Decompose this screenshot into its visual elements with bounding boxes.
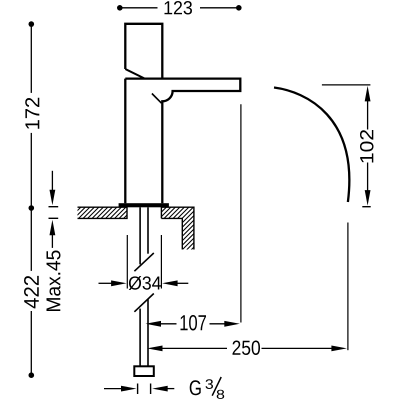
break slash lower [134, 294, 153, 312]
supply pipe [139, 309, 141, 367]
dimension Ø34 extension lines [126, 235, 128, 289]
spout fillet tick [152, 94, 162, 104]
handle lever diagonal [125, 69, 144, 78]
label 8 [217, 390, 225, 399]
label O34 [129, 276, 161, 290]
countertop left slab [78, 207, 128, 218]
faucet shank through hole [139, 207, 141, 264]
dimension 107 [146, 321, 240, 327]
countertop right slab L-shape [161, 207, 194, 249]
faucet handle [125, 24, 162, 79]
dimension Max.45 [49, 171, 59, 248]
label Max.45 rotated [47, 251, 61, 312]
faucet body and spout outline [125, 78, 240, 204]
dimension 422 [29, 208, 35, 378]
G3/8 connector [134, 366, 154, 376]
label 123 [165, 1, 193, 15]
spout outlet extension line [240, 104, 242, 322]
label G [190, 380, 201, 395]
spout curve arc [274, 88, 349, 203]
label 3 [206, 379, 214, 389]
dimension 250 [147, 346, 347, 352]
label 250 [233, 341, 261, 356]
dimension 172 [29, 21, 35, 211]
dimension 102 [322, 85, 371, 207]
label 102 rotated [360, 130, 374, 163]
dimension Ø34 [99, 280, 189, 286]
right lower extension line [347, 223, 349, 351]
label 422 rotated [24, 276, 39, 309]
base plate [119, 203, 169, 207]
dimension 123 top [117, 5, 242, 11]
label 172 rotated [25, 98, 39, 129]
break slash upper [134, 253, 153, 271]
dimension G3/8 [104, 377, 221, 396]
label 107 [181, 315, 207, 331]
